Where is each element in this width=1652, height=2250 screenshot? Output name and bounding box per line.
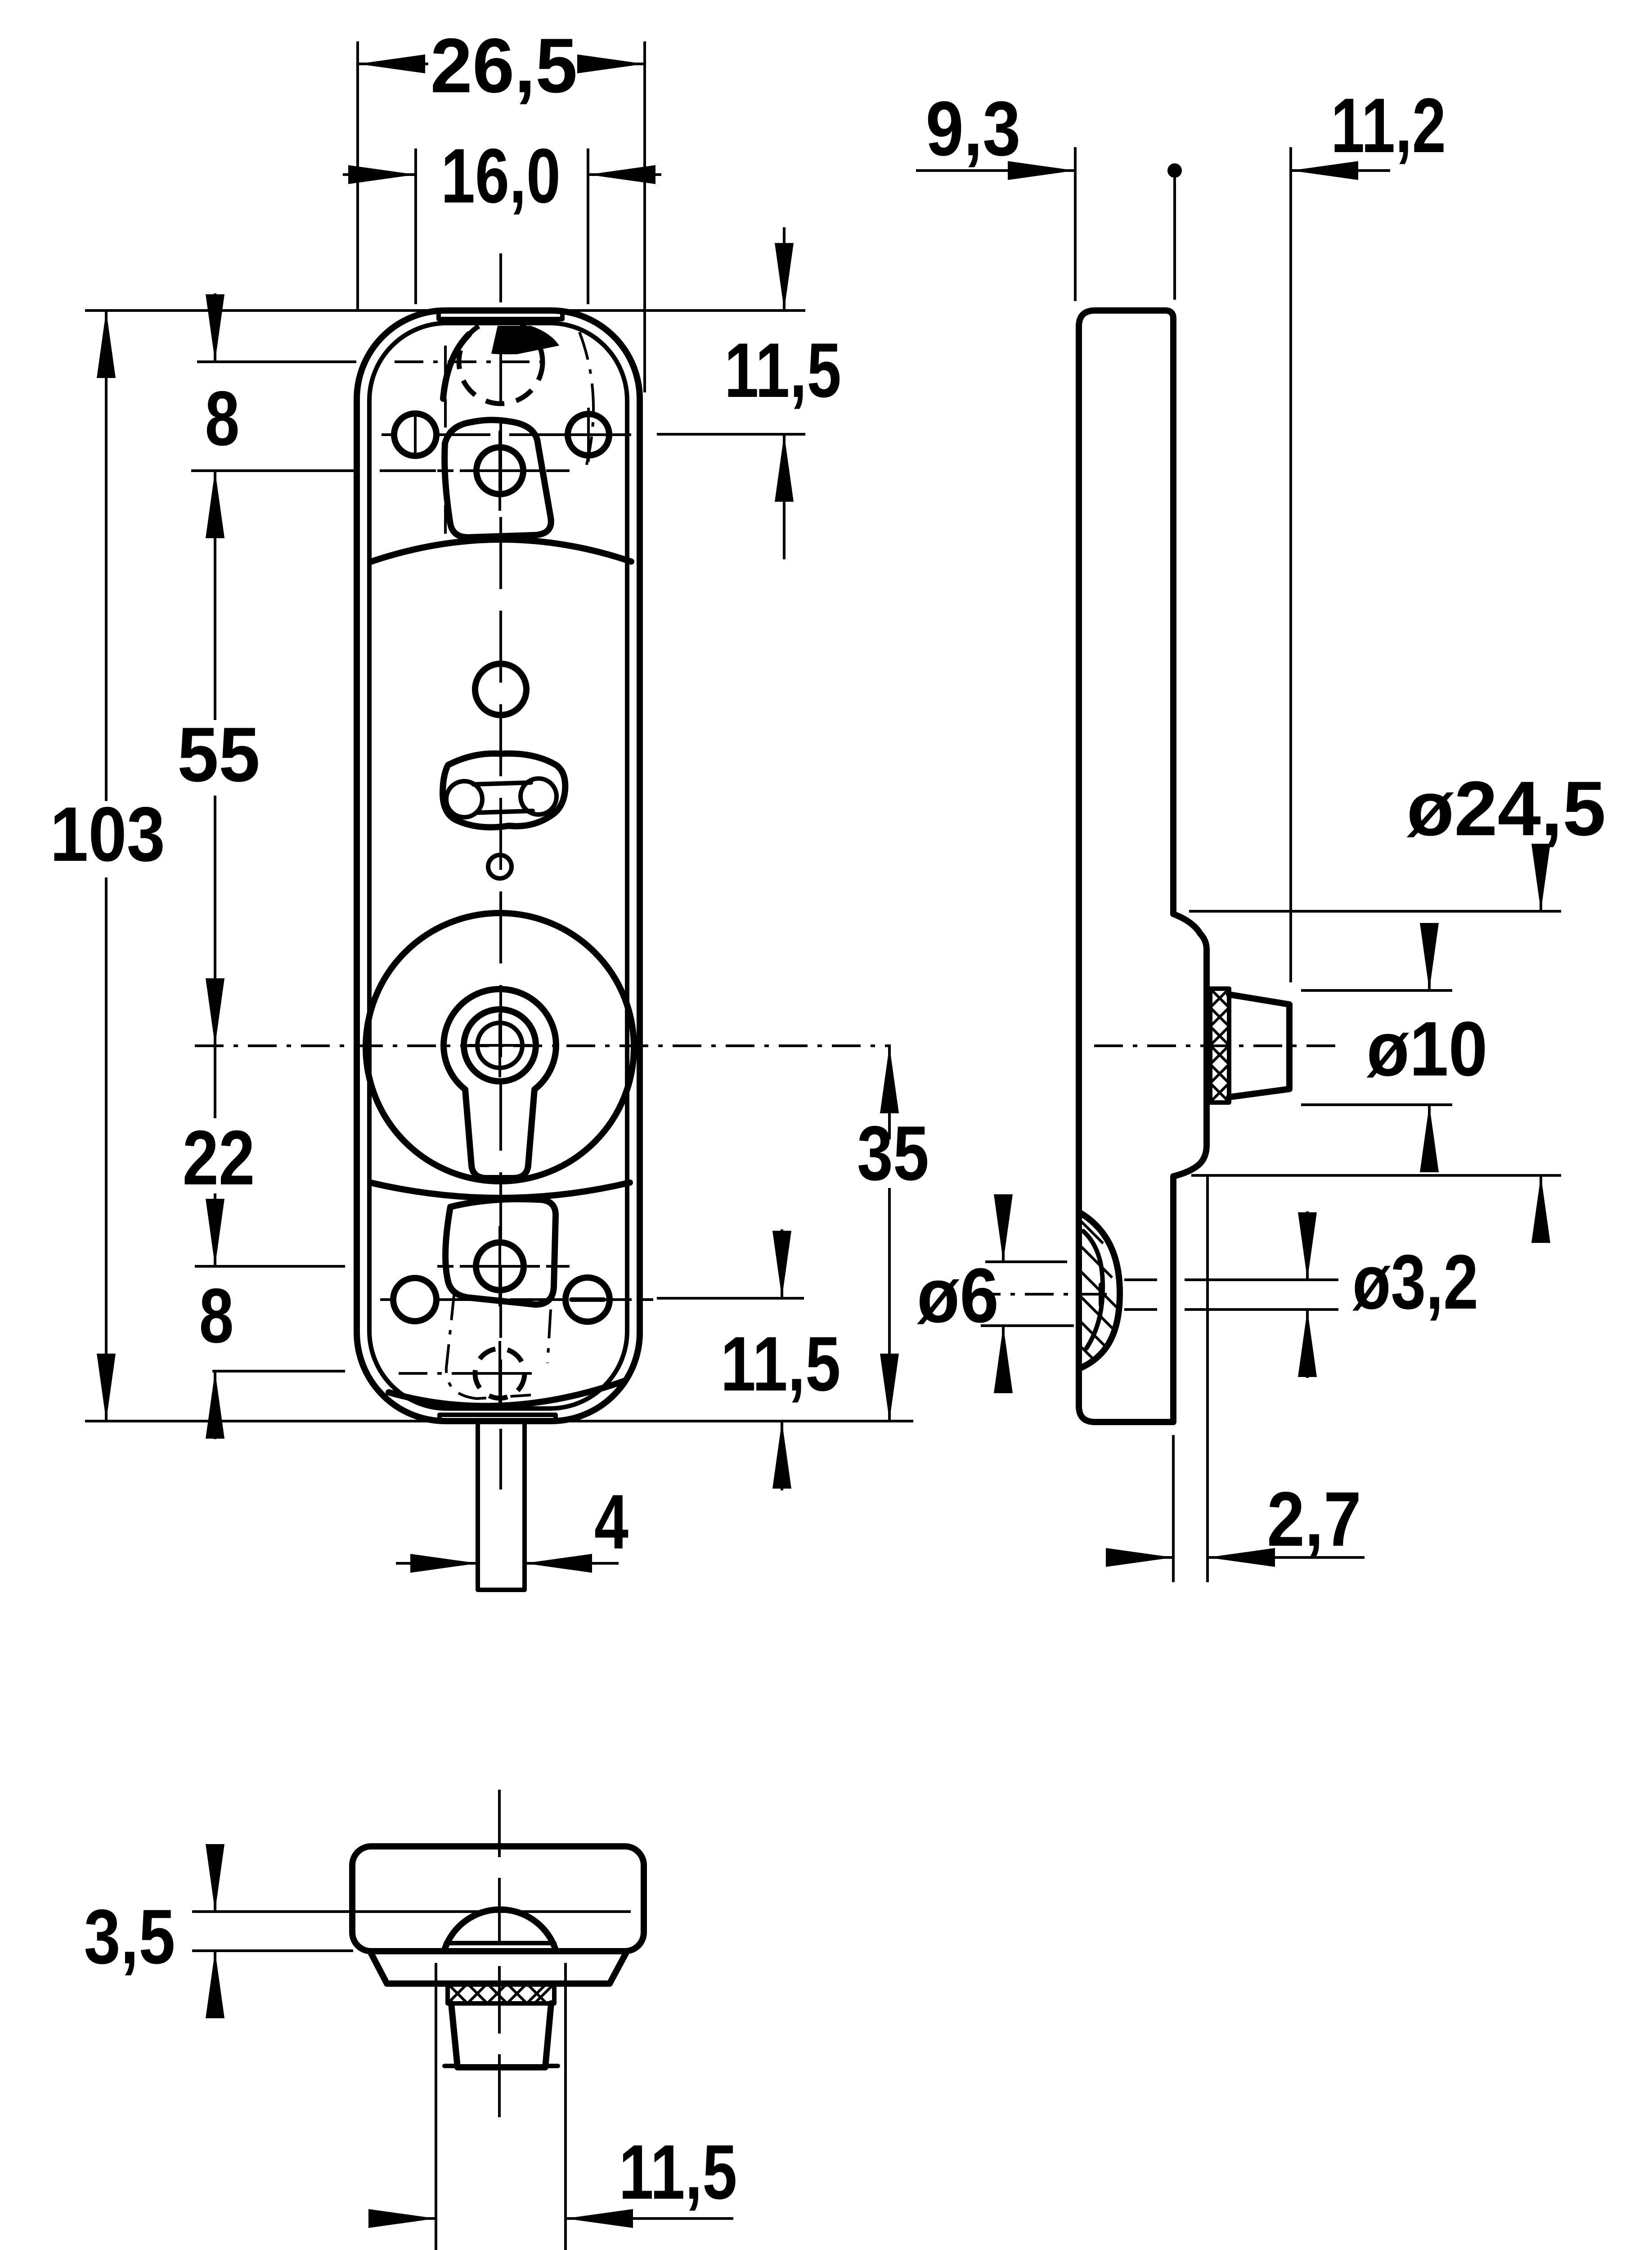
hidden lever arc right (dash-dot) <box>579 332 593 468</box>
dim 3,5 upper arrow <box>214 1845 216 1912</box>
case arc upper <box>371 540 631 562</box>
plug cone bottom view <box>451 2003 551 2067</box>
dim 26,5 extension left <box>356 41 359 310</box>
screw hole lower left <box>393 1278 436 1321</box>
bean right circle <box>521 778 557 814</box>
svg-text:16,0: 16,0 <box>441 133 561 219</box>
dim 11,5 top upper arrow <box>783 227 786 310</box>
dim 11,5 bottom lower arrow <box>781 1421 783 1490</box>
dim 22 line lower arrow <box>214 1193 216 1266</box>
dim 3,5 lower arrow <box>214 1951 216 2017</box>
dim o3,2 upper arrow <box>1306 1211 1309 1280</box>
bolt bar center line <box>499 1429 502 1489</box>
screw hole upper left <box>394 414 436 456</box>
guide hole above bean <box>475 664 526 715</box>
dim 11,2 extension line <box>1289 147 1292 982</box>
hidden circle top (dashed) <box>459 320 543 404</box>
countersink hatching <box>1080 1220 1117 1361</box>
lower pivot side dashes <box>437 1265 570 1268</box>
bean slot bars <box>473 783 533 813</box>
svg-text:9,3: 9,3 <box>926 85 1021 172</box>
svg-text:11,2: 11,2 <box>1331 82 1446 169</box>
hidden lever outline bottom right (dash-dot) <box>548 1309 551 1363</box>
central lever pivot circle <box>476 447 523 494</box>
plug feet <box>444 2064 558 2068</box>
svg-text:4: 4 <box>594 1479 628 1565</box>
svg-text:11,5: 11,5 <box>619 2129 737 2215</box>
hidden circle top center line horizontal <box>395 360 547 363</box>
knurl band side <box>1210 989 1229 1102</box>
dim 22 line upper <box>214 1046 216 1118</box>
dim 26,5 extension right <box>643 41 646 392</box>
dim 8 top upper arrow <box>214 293 216 362</box>
dim o24,5 upper arrow <box>1540 845 1542 911</box>
hidden circle bottom center line <box>399 1372 468 1375</box>
latch lever beak blob <box>491 326 559 354</box>
bottom edge extension line <box>85 1420 913 1422</box>
dim 2,7 left arrow <box>1113 1556 1173 1559</box>
keyhole center cross <box>468 1013 532 1077</box>
svg-text:ø24,5: ø24,5 <box>1407 765 1606 852</box>
svg-text:2,7: 2,7 <box>1267 1476 1361 1562</box>
knurl band bottom view <box>448 1984 554 2003</box>
dim 11,5 bv left arrow <box>369 2217 436 2220</box>
vertical center line main <box>499 330 502 1411</box>
dim 103 line upper <box>105 310 108 801</box>
dim o3,2 lower arrow <box>1306 1309 1309 1378</box>
upper left hole center tick <box>414 417 417 453</box>
dim 11,5 top extension line <box>657 433 805 436</box>
dim o6 lower arrow <box>1002 1326 1005 1392</box>
dim 16,0 extension right <box>587 148 589 304</box>
svg-text:8: 8 <box>199 1273 234 1359</box>
keyhole center line horizontal <box>195 1044 891 1047</box>
bolt bar below plate <box>478 1423 525 1590</box>
dim 55 line upper arrow <box>214 471 216 720</box>
dim o10 upper arrow <box>1428 923 1431 990</box>
svg-text:11,5: 11,5 <box>721 1321 841 1407</box>
dim 16,0 left arrow <box>343 173 416 176</box>
knob dome chord <box>446 1941 554 1945</box>
hidden circle bottom (dashed) <box>475 1349 525 1398</box>
face reference dot <box>1167 163 1182 178</box>
dim 2,7 right extension <box>1206 1176 1209 1582</box>
dim 55 line lower arrow <box>214 796 216 1046</box>
countersink bump outer <box>1079 1212 1120 1368</box>
dim 11,5 bv left extension <box>435 1963 437 2250</box>
knurl crosshatch side <box>1210 989 1229 1102</box>
svg-text:ø3,2: ø3,2 <box>1352 1239 1478 1325</box>
dim 35 line upper arrow <box>888 1046 891 1139</box>
dim 4 left arrow <box>396 1562 478 1565</box>
dim 3,5 upper extension <box>192 1910 631 1913</box>
hidden circle bottom cross <box>468 1341 532 1406</box>
dim o6 lower extension <box>981 1324 1074 1327</box>
lower right dash-dot continuation <box>535 1298 653 1301</box>
spindle bean cutout outline <box>443 754 565 828</box>
svg-text:ø6: ø6 <box>917 1252 999 1339</box>
knob cone side <box>1229 994 1289 1097</box>
dim 35 line lower arrow <box>888 1188 891 1421</box>
knob skirt <box>371 1953 626 1984</box>
lower lever pivot circle <box>476 1242 524 1290</box>
dim 16,0 right arrow <box>588 173 661 176</box>
dim 103 line lower <box>105 877 108 1421</box>
knob dome arc <box>444 1909 556 1951</box>
keyhole middle ring <box>464 1009 536 1081</box>
dim 2,7 right arrow <box>1208 1556 1365 1559</box>
dim o10 upper extension <box>1301 989 1452 992</box>
keyhole inner circle <box>477 1023 522 1068</box>
bottom view center line <box>498 1790 501 2117</box>
svg-text:11,5: 11,5 <box>724 327 841 414</box>
dim o6 upper arrow <box>1002 1195 1005 1262</box>
svg-text:26,5: 26,5 <box>431 22 578 109</box>
svg-text:55: 55 <box>177 711 260 798</box>
svg-text:8: 8 <box>205 375 240 462</box>
lower right hole dash <box>571 1297 604 1302</box>
svg-text:22: 22 <box>183 1115 255 1201</box>
dim o24,5 lower arrow <box>1540 1175 1542 1242</box>
lower lever plate <box>445 1199 556 1305</box>
lower hole row center line <box>380 1298 631 1301</box>
dim 11,5 bv right extension <box>564 1963 567 2250</box>
svg-text:ø10: ø10 <box>1367 1006 1488 1092</box>
bolt end plate top <box>439 311 562 319</box>
hidden circle top center cross vertical <box>499 330 502 395</box>
central lever plate <box>444 420 551 537</box>
dim 9,3 extension line <box>1074 147 1077 301</box>
knurl crosshatch bottom view <box>448 1984 554 2003</box>
dim 11,5 bottom extension line <box>657 1297 804 1300</box>
screw hole lines in side view <box>1124 1280 1338 1309</box>
front plate inner outline <box>369 323 627 1408</box>
dim 26,5 line right arrow <box>579 63 645 65</box>
dim 16,0 extension left <box>414 148 417 304</box>
top edge extension line <box>85 309 805 312</box>
bean left circle <box>446 781 482 817</box>
dim o6 upper extension <box>985 1260 1067 1263</box>
dim 4 right arrow <box>525 1562 619 1565</box>
dim 11,2 arrow <box>1291 169 1390 172</box>
extension line at 2814 <box>195 1265 345 1268</box>
case arc lower <box>370 1183 630 1198</box>
dim 26,5 line left arrow <box>358 63 428 65</box>
svg-text:3,5: 3,5 <box>84 1894 175 1980</box>
dim 8 bottom arrow <box>214 1371 216 1439</box>
dim o10 lower arrow <box>1428 1105 1431 1172</box>
central lever pivot cross <box>460 431 540 511</box>
dim 11,5 bv right arrow <box>566 2217 733 2220</box>
small hole below bean <box>488 855 512 878</box>
knob body bottom view <box>352 1846 644 1951</box>
bolt end plate bottom <box>440 1415 556 1422</box>
central pivot side dashes <box>437 469 570 472</box>
rosette circle <box>366 913 634 1181</box>
keyhole outline <box>444 989 556 1178</box>
dim 3,5 lower extension <box>192 1949 353 1952</box>
countersink bump inner <box>1083 1231 1103 1348</box>
countersink center line <box>972 1293 1129 1296</box>
dim o24,5 upper extension <box>1189 910 1561 913</box>
vertical center line above plate <box>499 253 502 302</box>
front plate outer outline <box>357 310 640 1421</box>
latch lever solid beak top <box>443 334 469 399</box>
screw hole lower right <box>566 1278 610 1322</box>
hidden lever outline bottom left (dash-dot) <box>446 1291 531 1399</box>
svg-text:35: 35 <box>857 1110 929 1197</box>
knob center line <box>1094 1044 1336 1047</box>
hidden case line left (dash-dot vertical) <box>444 346 447 542</box>
svg-text:103: 103 <box>50 791 165 877</box>
upper hole row center line <box>382 433 631 436</box>
side plate outline <box>1079 310 1207 1422</box>
face reference line <box>1173 171 1176 300</box>
dim 8 bottom extension at 3047 <box>212 1370 345 1372</box>
lower lever pivot cross <box>460 1226 540 1306</box>
dim 2,7 left extension <box>1172 1435 1175 1582</box>
dim 11,5 bottom upper arrow <box>781 1229 783 1298</box>
countersink hole wall <box>1099 1285 1103 1305</box>
dim 11,5 top lower arrow <box>783 434 786 559</box>
dim o10 lower extension <box>1301 1103 1452 1106</box>
dim o24,5 lower extension <box>1191 1174 1561 1177</box>
dim 8 top lower arrow <box>214 471 216 539</box>
upper right hole cross <box>561 408 615 462</box>
dim 8 top extension at 804 <box>197 360 356 363</box>
dim 8 top extension at 1046 <box>191 469 355 472</box>
dim 8 inner extension at 1046 <box>380 469 436 472</box>
screw hole upper right <box>568 414 609 455</box>
dim 9,3 arrow <box>916 169 1075 172</box>
case arc bottom <box>389 1381 625 1406</box>
